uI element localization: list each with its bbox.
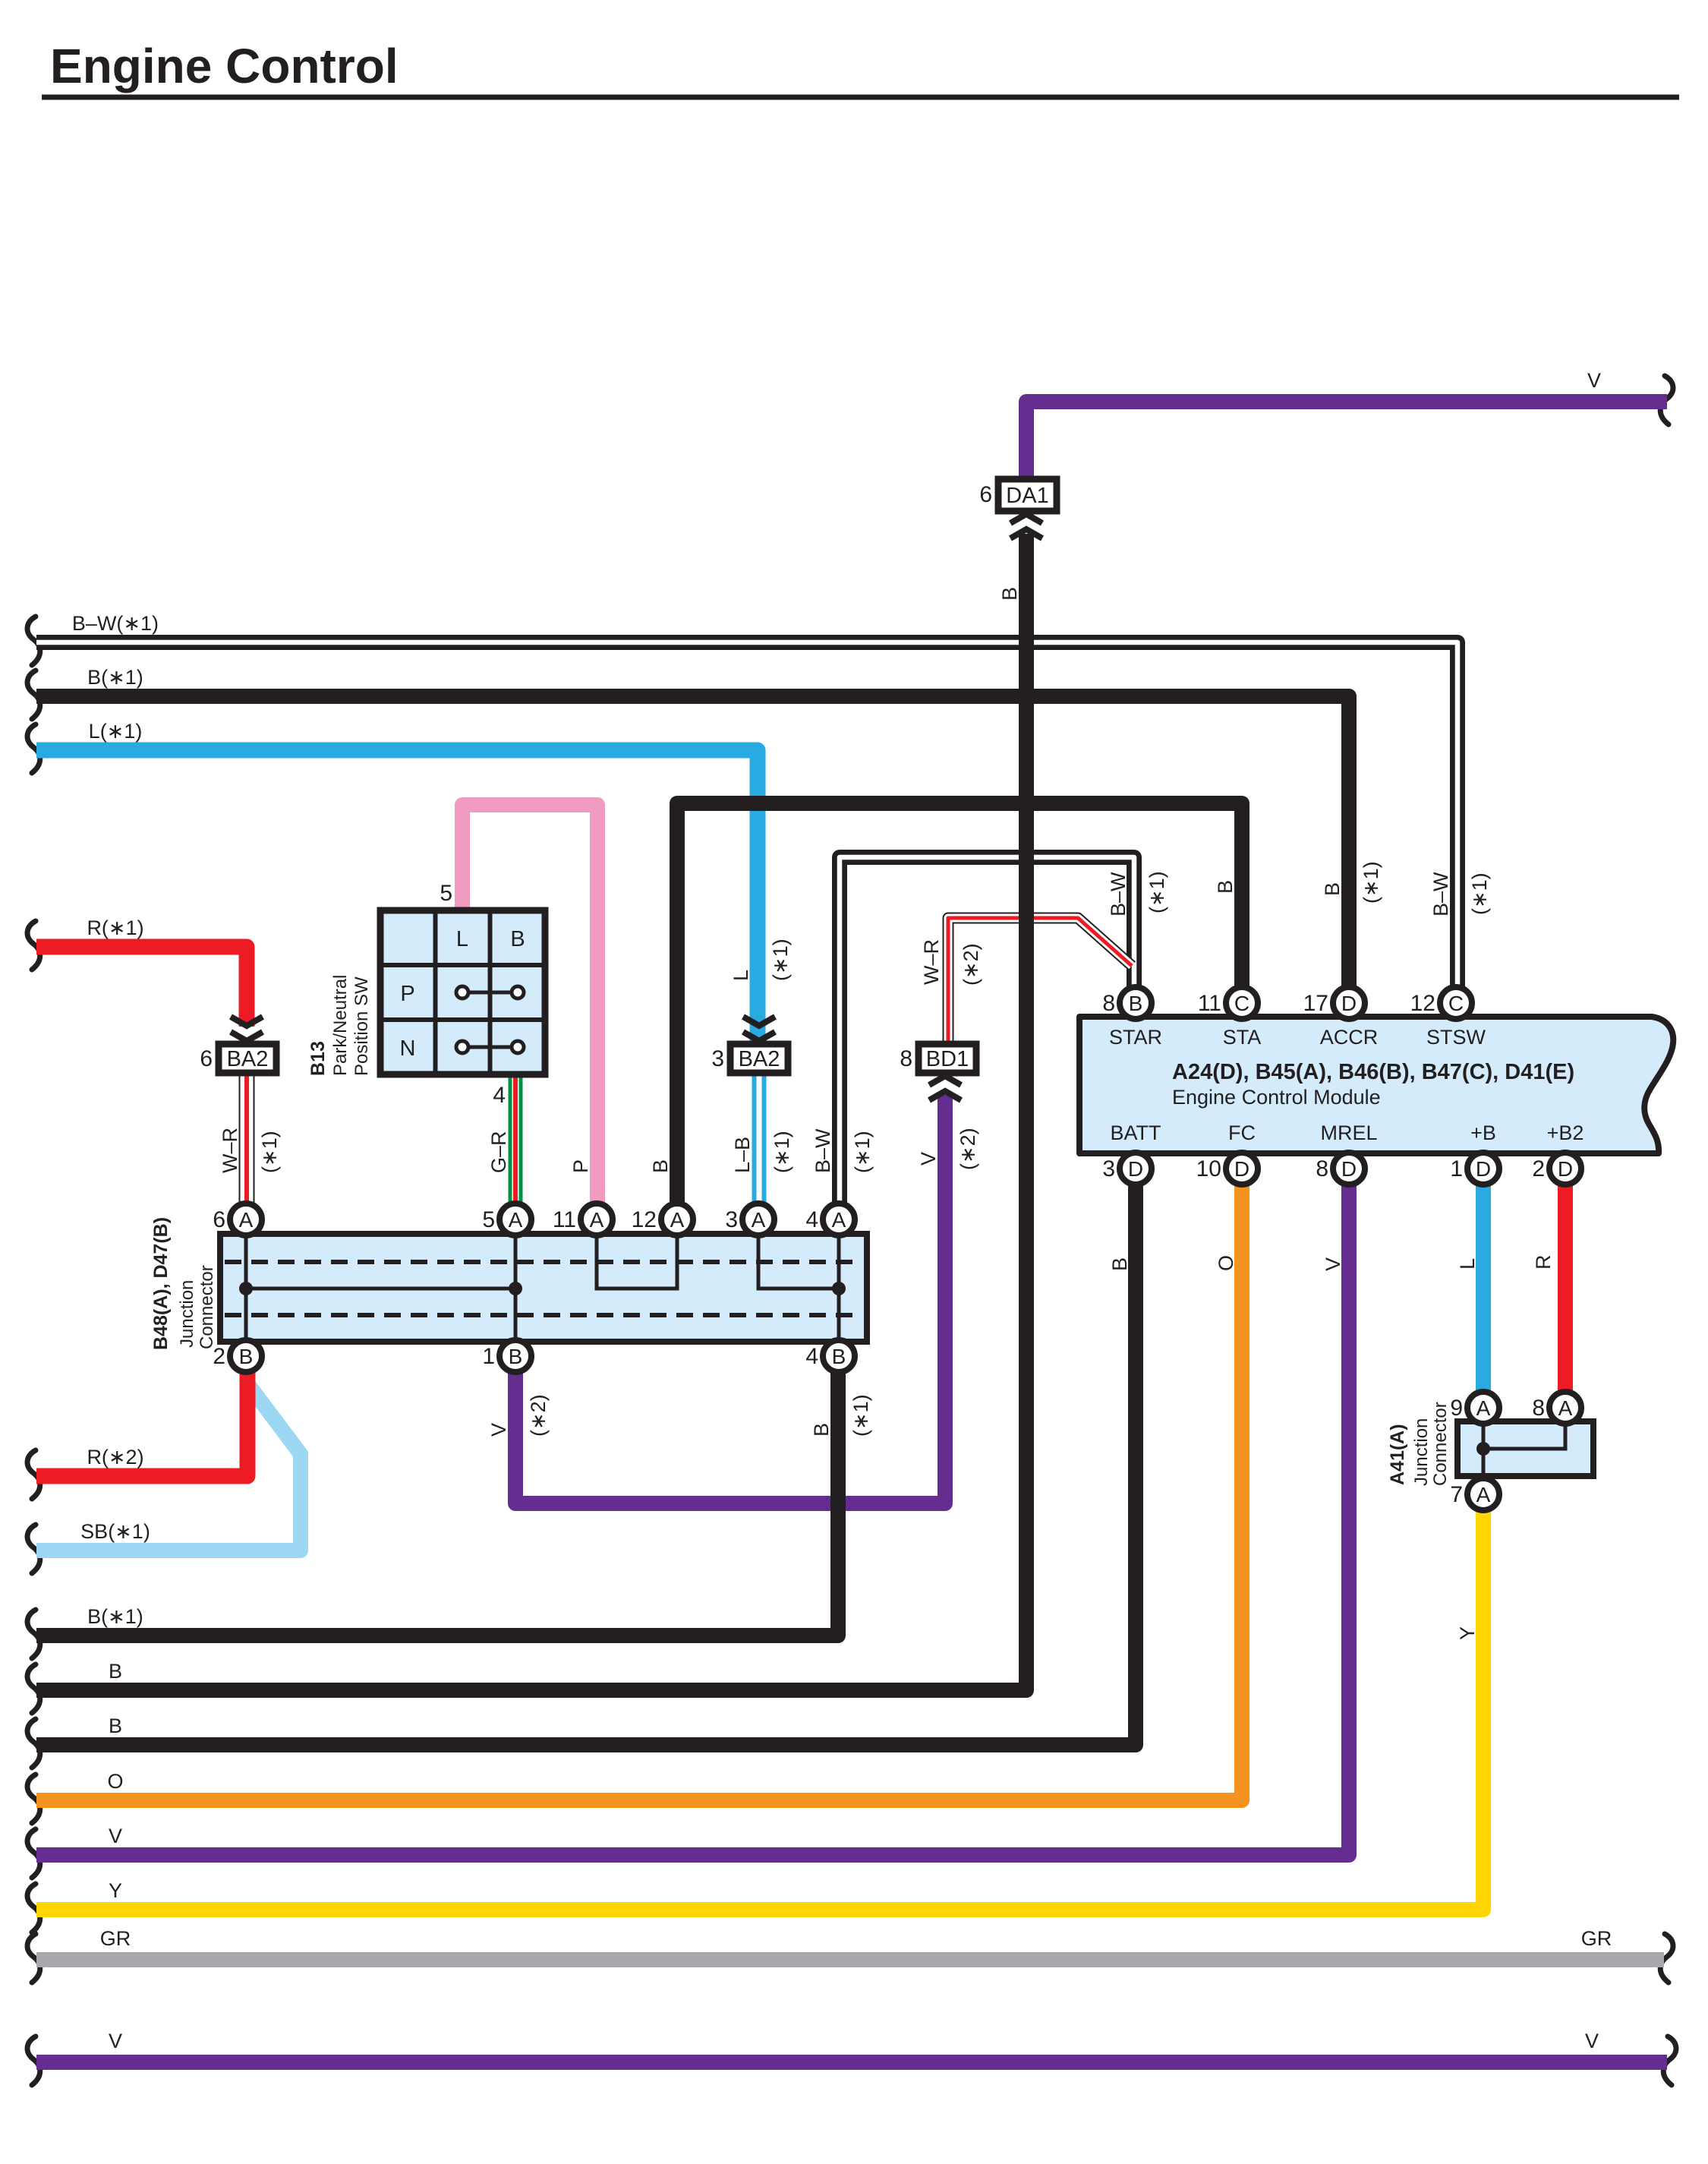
svg-text:B: B (998, 587, 1021, 601)
svg-text:8: 8 (900, 1046, 912, 1071)
svg-text:BA2: BA2 (227, 1047, 269, 1071)
svg-text:(∗1): (∗1) (1145, 871, 1168, 913)
svg-text:3: 3 (711, 1046, 724, 1071)
svg-text:L(∗1): L(∗1) (89, 720, 143, 743)
svg-text:(∗1): (∗1) (1360, 861, 1382, 904)
wire O orange to ECM pin FC (27, 1774, 40, 1823)
svg-text:STSW: STSW (1426, 1026, 1486, 1049)
svg-text:B: B (239, 1345, 254, 1368)
wire L(*1) cyan left to connector 3 BA2 (27, 724, 40, 773)
svg-text:STA: STA (1223, 1026, 1262, 1049)
ECM pin 2 D bottom (1549, 1153, 1581, 1185)
svg-text:L: L (1456, 1258, 1479, 1270)
svg-text:5: 5 (482, 1207, 495, 1232)
svg-text:W–R: W–R (920, 939, 943, 985)
svg-text:R: R (1532, 1255, 1555, 1270)
wire V purple top right to connector 6 DA1 (1660, 376, 1673, 424)
svg-text:A: A (1476, 1396, 1491, 1420)
svg-text:5: 5 (440, 881, 452, 906)
wire B black from DA1 arrow down to left edge (27, 1664, 40, 1713)
svg-text:A: A (590, 1208, 604, 1232)
svg-text:L: L (456, 927, 468, 951)
svg-text:A41(A): A41(A) (1387, 1424, 1408, 1485)
svg-text:W–R: W–R (219, 1128, 241, 1173)
svg-text:9: 9 (1450, 1396, 1463, 1421)
svg-text:+B: +B (1470, 1121, 1496, 1144)
svg-text:Engine Control Module: Engine Control Module (1172, 1086, 1381, 1109)
svg-text:R(∗2): R(∗2) (87, 1446, 143, 1468)
A41 pin 9A (1467, 1392, 1499, 1424)
svg-text:A: A (752, 1208, 766, 1232)
wire L-B connector 3 BA2 to junction pin 3A (752, 1073, 767, 1203)
junction internal bus 6A-5A (246, 1287, 515, 1291)
junction pin 2B (230, 1340, 262, 1372)
svg-text:8: 8 (1532, 1396, 1545, 1421)
svg-text:D: D (1234, 1157, 1249, 1181)
svg-text:B: B (109, 1714, 122, 1737)
svg-text:B: B (1214, 880, 1237, 894)
svg-text:P: P (569, 1159, 592, 1173)
svg-text:A: A (670, 1208, 685, 1232)
svg-text:V: V (1585, 2030, 1599, 2052)
svg-text:B: B (649, 1159, 672, 1173)
svg-text:B13: B13 (307, 1041, 329, 1076)
title underline (42, 95, 1679, 100)
svg-text:(∗1): (∗1) (1468, 872, 1491, 915)
wire W-R connector 6 BA2 to junction pin 6A (239, 1071, 255, 1203)
svg-text:A: A (1558, 1396, 1573, 1420)
wire B(*1) left to ACCR (27, 670, 40, 719)
wire B-W(*1) top left to STSW (27, 617, 40, 665)
svg-text:3: 3 (1102, 1156, 1115, 1181)
svg-text:4: 4 (805, 1207, 818, 1232)
junction connector B48(A) D47(B) box (220, 1234, 867, 1342)
svg-text:B: B (1129, 992, 1143, 1015)
svg-text:SB(∗1): SB(∗1) (80, 1520, 150, 1543)
connector 6 DA1 (998, 479, 1057, 511)
ECM pin 3 D bottom (1120, 1153, 1152, 1185)
svg-text:D: D (1341, 1157, 1357, 1181)
svg-text:(∗1): (∗1) (849, 1394, 872, 1437)
wire GR gray across bottom (27, 1934, 40, 1983)
svg-text:C: C (1234, 992, 1249, 1015)
svg-text:GR: GR (1581, 1927, 1612, 1950)
connector 8 BD1 (919, 1044, 976, 1073)
connector 6 BA2 (219, 1044, 276, 1073)
connector 3 BA2 (730, 1044, 788, 1073)
arrow into connector 6 BA2 (231, 1017, 263, 1026)
svg-text:B(∗1): B(∗1) (87, 666, 143, 689)
svg-text:12: 12 (632, 1207, 657, 1232)
junction pin 1B (499, 1340, 531, 1372)
svg-text:6: 6 (200, 1046, 213, 1071)
svg-text:8: 8 (1316, 1156, 1328, 1181)
junction internal wire 4A to 4B (837, 1235, 841, 1340)
wire L cyan ECM pin +B to A41 pin 9A (1476, 1185, 1491, 1392)
A41 pin 8A (1549, 1392, 1581, 1424)
svg-text:(∗1): (∗1) (258, 1131, 281, 1173)
junction connector dashed lines (225, 1260, 862, 1264)
svg-text:8: 8 (1102, 991, 1115, 1016)
svg-text:7: 7 (1450, 1482, 1463, 1507)
svg-text:12: 12 (1410, 991, 1435, 1016)
junction pin 4A (823, 1203, 855, 1235)
svg-text:O: O (107, 1770, 123, 1793)
junction pin 4B (823, 1340, 855, 1372)
svg-text:Y: Y (109, 1879, 122, 1902)
svg-text:G–R: G–R (487, 1131, 510, 1173)
arrow into connector 8 BD1 (929, 1076, 961, 1085)
junction connector A41(A) box (1457, 1421, 1593, 1476)
svg-text:C: C (1448, 992, 1464, 1015)
svg-text:2: 2 (1532, 1156, 1545, 1181)
svg-text:V: V (487, 1423, 510, 1437)
svg-text:A: A (239, 1208, 254, 1232)
wire B to ECM pin BATT (27, 1719, 40, 1768)
svg-text:V: V (1587, 369, 1601, 392)
svg-text:V: V (109, 1825, 122, 1847)
svg-text:MREL: MREL (1320, 1121, 1377, 1144)
switch B13 Park/Neutral Position SW box (380, 910, 545, 1074)
svg-text:D: D (1476, 1157, 1491, 1181)
svg-text:A: A (1476, 1483, 1491, 1506)
svg-text:1: 1 (1450, 1156, 1463, 1181)
svg-text:DA1: DA1 (1006, 484, 1048, 508)
wire V(*2) purple junction 1B to connector 8 BD1 (515, 1095, 945, 1503)
svg-text:Engine Control: Engine Control (50, 39, 399, 93)
ECM pin 12 C top (1440, 987, 1472, 1019)
svg-text:B: B (832, 1345, 846, 1368)
svg-text:6: 6 (213, 1207, 225, 1232)
wire R(*1) red left to connector 6 BA2 (27, 921, 40, 970)
svg-text:V: V (917, 1152, 940, 1166)
svg-text:4: 4 (493, 1083, 506, 1108)
svg-text:D: D (1341, 992, 1357, 1015)
switch B13 contact N row (465, 1046, 515, 1049)
svg-text:(∗2): (∗2) (956, 1128, 979, 1170)
svg-text:(∗2): (∗2) (960, 943, 982, 986)
svg-text:BA2: BA2 (739, 1047, 780, 1071)
svg-text:Junction: Junction (177, 1280, 197, 1348)
wire R red ECM pin +B2 to A41 pin 8A (1558, 1185, 1573, 1392)
wire P pink switch B13 pin 5 to junction pin 11A (462, 805, 597, 1203)
ECM pin 10 D bottom (1226, 1153, 1258, 1185)
junction pin 5A (499, 1203, 531, 1235)
junction pin 11A (581, 1203, 613, 1235)
A41 pin 7A (1467, 1478, 1499, 1510)
arrow into connector 6 DA1 (1010, 514, 1042, 523)
wire V purple to ECM pin MREL (27, 1829, 40, 1878)
arrow into connector 3 BA2 (743, 1017, 775, 1026)
svg-text:V: V (1322, 1257, 1344, 1271)
svg-text:ACCR: ACCR (1320, 1026, 1379, 1049)
wire R(*2) red to junction pin 2B (27, 1450, 40, 1499)
svg-text:B: B (1321, 882, 1344, 896)
svg-text:(∗1): (∗1) (769, 938, 792, 981)
junction internal wire 6A to 2B (244, 1235, 248, 1340)
svg-text:GR: GR (100, 1927, 131, 1950)
switch B13 contact P row (465, 991, 515, 995)
svg-text:A: A (832, 1208, 846, 1232)
svg-text:+B2: +B2 (1547, 1121, 1584, 1144)
svg-text:Junction: Junction (1411, 1418, 1432, 1486)
svg-text:2: 2 (213, 1344, 225, 1369)
ECM pin 1 D bottom (1467, 1153, 1499, 1185)
junction pin 6A (230, 1203, 262, 1235)
svg-text:10: 10 (1196, 1156, 1221, 1181)
svg-text:FC: FC (1228, 1121, 1256, 1144)
ECM pin 8 D bottom (1333, 1153, 1365, 1185)
junction pin 3A (742, 1203, 774, 1235)
svg-text:N: N (400, 1036, 416, 1061)
svg-text:B–W: B–W (1107, 872, 1130, 916)
svg-text:11: 11 (1198, 991, 1221, 1016)
wire SB(*1) light blue to junction pin 2B (27, 1525, 40, 1573)
svg-text:1: 1 (482, 1344, 495, 1369)
svg-text:B–W(∗1): B–W(∗1) (72, 612, 159, 635)
wire B(*1) bottom left to junction pin 4B (27, 1610, 40, 1658)
wire Y yellow to junction A41 pin 7A (27, 1884, 40, 1932)
svg-text:11: 11 (553, 1207, 576, 1232)
svg-text:B: B (109, 1660, 122, 1683)
wire W-R(*2) connector 8 BD1 to ECM pin STAR (948, 918, 1132, 1044)
svg-text:4: 4 (805, 1344, 818, 1369)
svg-text:6: 6 (979, 482, 992, 507)
svg-text:BATT: BATT (1111, 1121, 1161, 1144)
svg-text:L: L (730, 970, 752, 981)
svg-text:Position SW: Position SW (351, 976, 372, 1076)
svg-text:Connector: Connector (1430, 1402, 1451, 1486)
ECM pin 17 D top (1333, 987, 1365, 1019)
junction pin 12A (661, 1203, 693, 1235)
svg-text:A: A (509, 1208, 523, 1232)
svg-text:B: B (510, 927, 525, 951)
svg-text:B: B (1108, 1257, 1131, 1271)
svg-text:Park/Neutral: Park/Neutral (330, 975, 351, 1076)
ECM Engine Control Module box (1079, 1017, 1673, 1153)
svg-text:B: B (810, 1423, 833, 1437)
svg-text:BD1: BD1 (926, 1047, 969, 1071)
svg-text:L–B: L–B (731, 1137, 754, 1173)
junction internal bridge 11A-12A (597, 1235, 677, 1289)
ECM pin 11 C top (1226, 987, 1258, 1019)
svg-text:B(∗1): B(∗1) (87, 1605, 143, 1628)
svg-text:B–W: B–W (1429, 872, 1452, 916)
svg-text:(∗1): (∗1) (851, 1131, 874, 1173)
svg-text:(∗1): (∗1) (770, 1131, 793, 1173)
junction dots (239, 1282, 253, 1295)
svg-text:3: 3 (725, 1207, 738, 1232)
wire G-R switch B13 pin 4 to junction pin 5A (509, 1074, 523, 1203)
svg-text:17: 17 (1303, 991, 1328, 1016)
svg-text:D: D (1128, 1157, 1143, 1181)
svg-text:O: O (1215, 1255, 1237, 1271)
junction internal bridge 3A-4A (758, 1235, 839, 1289)
svg-text:D: D (1558, 1157, 1573, 1181)
wire V purple across very bottom (27, 2036, 40, 2085)
wire B junction 12A to ECM pin STA (677, 803, 1242, 1203)
svg-text:A24(D), B45(A), B46(B), B47(C): A24(D), B45(A), B46(B), B47(C), D41(E) (1172, 1060, 1574, 1084)
A41 internal wires (1482, 1423, 1486, 1475)
wire B-W junction 4A to ECM pin STAR (840, 857, 1134, 1203)
svg-text:Y: Y (1456, 1626, 1479, 1640)
svg-text:B–W: B–W (811, 1128, 834, 1173)
svg-text:P: P (400, 982, 414, 1006)
svg-text:B48(A), D47(B): B48(A), D47(B) (150, 1217, 172, 1350)
svg-text:Connector: Connector (197, 1265, 217, 1349)
ECM pin 8 B top (1120, 987, 1152, 1019)
svg-text:B: B (509, 1345, 523, 1368)
svg-text:STAR: STAR (1109, 1026, 1162, 1049)
junction internal wire 5A to 1B (514, 1235, 518, 1340)
svg-text:(∗2): (∗2) (527, 1394, 550, 1437)
svg-text:R(∗1): R(∗1) (87, 916, 143, 939)
svg-text:V: V (109, 2030, 122, 2052)
